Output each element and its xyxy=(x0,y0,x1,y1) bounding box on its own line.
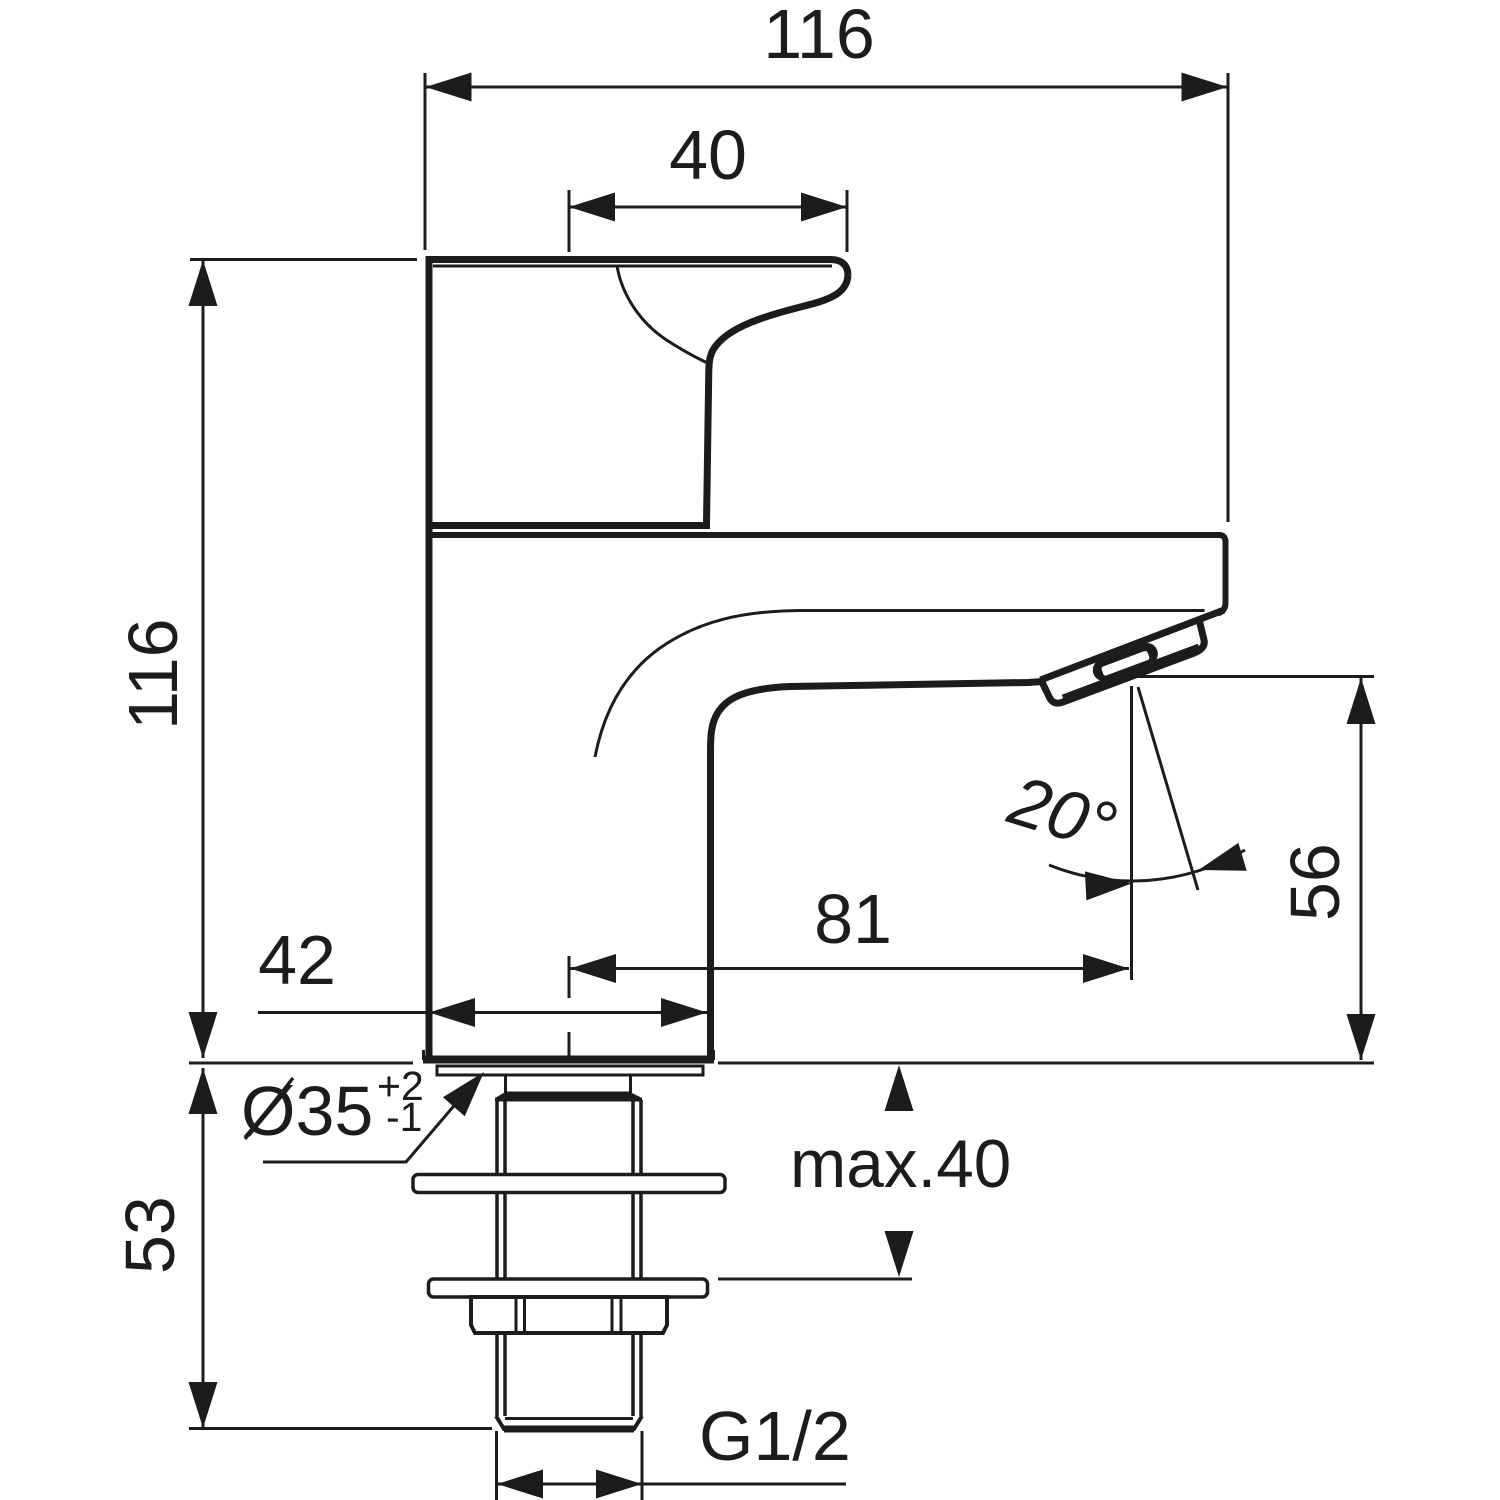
arrowhead 42 right xyxy=(661,998,707,1027)
lower flange washer xyxy=(429,1279,708,1297)
nozzle housing outline xyxy=(1042,622,1205,704)
extension line 116 left top xyxy=(190,258,417,261)
arrowhead 53 top xyxy=(189,1068,218,1114)
angle leg vertical xyxy=(1130,686,1133,980)
faucet handle block bottom edge xyxy=(426,522,710,529)
svg-text:53: 53 xyxy=(111,1196,189,1274)
svg-text:56: 56 xyxy=(1276,843,1354,921)
arrowhead 81 right xyxy=(1083,954,1129,983)
shank top cap xyxy=(495,1092,642,1102)
arrowhead 42 left xyxy=(429,998,475,1027)
svg-text:116: 116 xyxy=(763,0,875,73)
svg-text:max.40: max.40 xyxy=(790,1127,1011,1202)
shank tip bottom edge xyxy=(504,1426,634,1433)
extension ticks 40 xyxy=(569,190,847,252)
base bottom bar xyxy=(423,1056,714,1064)
angle arc xyxy=(1049,850,1245,881)
faucet handle lever curve xyxy=(707,275,849,523)
arrowhead 81 left xyxy=(570,954,616,983)
spout right edge xyxy=(1218,540,1226,614)
svg-text:G1/2: G1/2 xyxy=(699,1397,851,1475)
pillar left edge xyxy=(426,520,433,1057)
arrowhead G1/2 right xyxy=(596,1470,642,1499)
tolerance label -1 xyxy=(388,1103,421,1131)
arrowhead 116 top left xyxy=(426,73,472,102)
arrowhead O35 leader xyxy=(443,1072,484,1116)
dimension line 56 xyxy=(1360,678,1363,1060)
dimension line 40 xyxy=(569,206,847,209)
leader line O35 xyxy=(263,1080,476,1162)
arrowhead G1/2 left xyxy=(497,1470,543,1499)
handle seam curve xyxy=(617,266,706,362)
arrowhead 116 top right xyxy=(1182,73,1228,102)
svg-text:81: 81 xyxy=(814,880,892,958)
extension line 53 bottom xyxy=(189,1427,492,1430)
arrowhead 40 left xyxy=(569,193,615,222)
arrowhead 53 bottom xyxy=(189,1382,218,1428)
aerator ring xyxy=(1090,640,1161,684)
arrowhead 56 top xyxy=(1347,678,1376,724)
O35 slash overlay xyxy=(245,1078,293,1139)
arrowhead 116 left top xyxy=(189,260,218,306)
extension line 116 top right xyxy=(1227,73,1230,522)
base gasket xyxy=(437,1066,703,1075)
mounting surface line left segment xyxy=(189,1062,413,1065)
arrowhead max.40 down xyxy=(885,1231,914,1277)
extension line max.40 bottom xyxy=(718,1278,912,1281)
svg-text:42: 42 xyxy=(258,921,336,999)
dimension line 53 xyxy=(202,1068,205,1428)
faucet handle block left+top edge xyxy=(426,260,849,531)
tolerance label +2 xyxy=(379,1071,422,1100)
dimension line G1/2 xyxy=(497,1483,846,1486)
shank tip chamfer xyxy=(496,1416,642,1429)
angle leg 20 degrees xyxy=(1138,687,1198,890)
svg-text:116: 116 xyxy=(114,618,192,730)
mounting surface line right segment xyxy=(718,1062,1374,1065)
svg-text:40: 40 xyxy=(669,116,747,194)
base corner stubs xyxy=(424,1050,714,1060)
handle top inner line xyxy=(433,265,832,268)
threaded shank tube xyxy=(497,1100,641,1416)
nozzle housing shading line xyxy=(1063,647,1199,698)
dimension line 116 top xyxy=(425,86,1228,89)
spout underside inner line xyxy=(595,611,1205,758)
arrowhead 56 bottom xyxy=(1347,1014,1376,1060)
hex nut facet lines xyxy=(516,1297,621,1331)
shank tip inner line xyxy=(505,1417,633,1420)
arrowhead 116 left bottom xyxy=(189,1012,218,1058)
extension line 56 top xyxy=(1138,675,1374,678)
spout top edge xyxy=(429,535,1226,542)
arrowhead angle arc left xyxy=(1085,871,1132,900)
arrowhead max.40 up xyxy=(885,1065,914,1111)
nozzle top diagonal xyxy=(1041,610,1225,680)
dimension line 116 left xyxy=(202,260,205,1058)
extension line 116 top left xyxy=(424,73,427,250)
arrowhead angle arc right xyxy=(1199,843,1247,871)
dimension line 42 xyxy=(258,1011,707,1014)
upper flange washer xyxy=(413,1175,725,1193)
centerline ticks xyxy=(568,956,571,1062)
hex nut xyxy=(471,1297,667,1333)
arrowhead 40 right xyxy=(801,193,847,222)
extension lines G1/2 xyxy=(497,1431,643,1500)
spout underside outline and pillar right edge xyxy=(711,682,1044,1057)
shank neck xyxy=(506,1075,631,1093)
dimension line 81 xyxy=(570,967,1129,970)
svg-text:Ø35: Ø35 xyxy=(241,1072,373,1150)
